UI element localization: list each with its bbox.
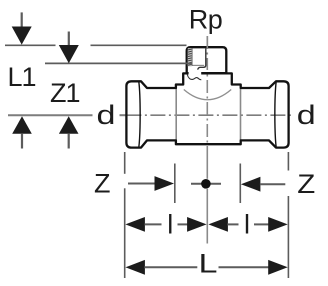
left socket bead inner contour bbox=[139, 82, 140, 148]
Z1 up arrow bbox=[59, 116, 79, 134]
horizontal centerline axis (d line) bbox=[8, 114, 293, 116]
svg-text:Rp: Rp bbox=[189, 5, 223, 35]
L row dimension bbox=[125, 260, 144, 275]
Z1 down arrow bbox=[68, 32, 70, 46]
svg-text:l: l bbox=[244, 210, 250, 240]
section cut line in branch bbox=[198, 49, 206, 70]
svg-text:L1: L1 bbox=[8, 62, 36, 92]
L1 top extension line (branch top level) bbox=[5, 44, 187, 46]
svg-text:l: l bbox=[167, 210, 173, 240]
Z row right: arrow and shaft bbox=[241, 177, 261, 192]
vertical centerline axis of branch bbox=[206, 36, 208, 244]
thread hatch band backing bbox=[188, 48, 192, 66]
thread hatch ticks bbox=[188, 49, 192, 65]
extension line left socket depth bbox=[174, 164, 176, 204]
thread minor diameter line bbox=[191, 49, 193, 67]
L1 down arrow bbox=[21, 12, 23, 27]
Z1 top extension line (thread depth level) bbox=[45, 62, 192, 64]
right socket bead inner contour bbox=[275, 82, 276, 148]
l row left dimension bbox=[125, 217, 144, 232]
branch crotch arc bbox=[184, 90, 231, 100]
extension line left fitting end bbox=[124, 152, 126, 278]
extension line right fitting end bbox=[287, 152, 289, 278]
fitting body white fill (run + sockets + neck) bbox=[126, 73, 288, 147]
L1 up arrow bbox=[12, 116, 32, 134]
branch block white fill bbox=[187, 47, 227, 73]
Z row left: shaft and arrow bbox=[128, 183, 156, 185]
left socket depth step line bbox=[175, 89, 177, 141]
svg-text:Z: Z bbox=[297, 169, 315, 199]
svg-text:d: d bbox=[97, 100, 116, 130]
fitting run outline stroke bbox=[126, 73, 288, 147]
vertical centerline inside branch block bbox=[206, 36, 208, 70]
svg-text:d: d bbox=[297, 100, 316, 130]
Z row centre stub and dot bbox=[191, 183, 221, 185]
threaded branch block Rp outline bbox=[187, 47, 227, 73]
l row right dimension bbox=[208, 217, 228, 232]
extension line right socket depth bbox=[239, 164, 241, 204]
svg-text:Z: Z bbox=[94, 168, 111, 198]
right socket depth step line bbox=[240, 89, 242, 141]
svg-text:Z1: Z1 bbox=[50, 78, 80, 108]
thread depth line (Z1 reference inside block) bbox=[192, 64, 204, 66]
break squiggle opening below block bbox=[189, 72, 202, 75]
svg-text:L: L bbox=[199, 249, 218, 279]
